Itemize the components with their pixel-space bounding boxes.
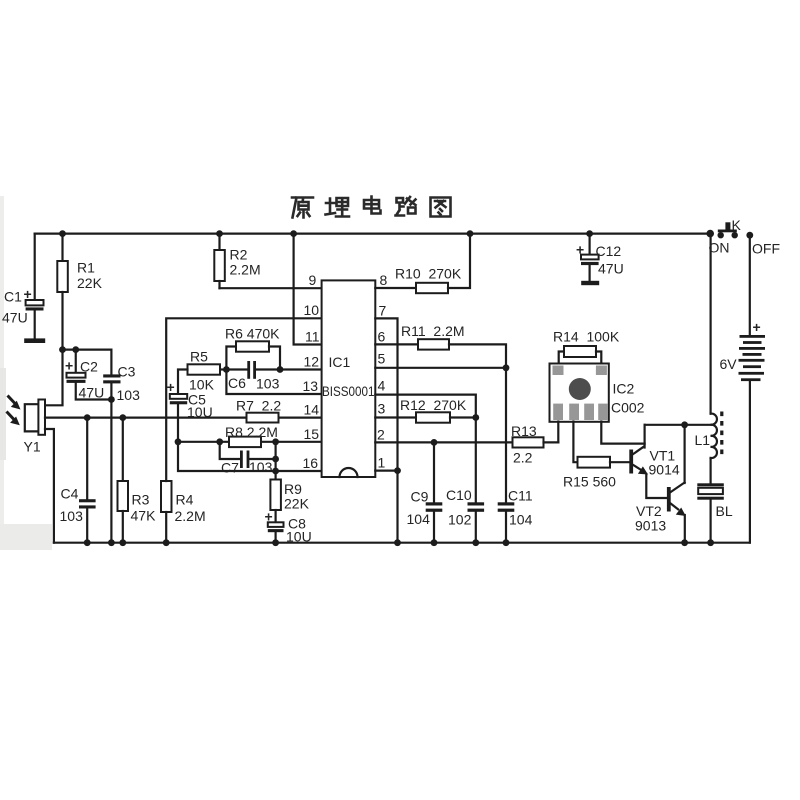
svg-text:+: +	[265, 509, 273, 525]
svg-text:R12 270K: R12 270K	[400, 397, 467, 413]
title 原	[292, 198, 313, 218]
svg-text:C6: C6	[228, 375, 246, 391]
wire pin 9 line	[220, 287, 322, 289]
resistor R7	[236, 398, 281, 423]
svg-text:Y1: Y1	[24, 439, 41, 455]
resistor R15	[563, 457, 629, 490]
svg-text:103: 103	[256, 376, 280, 392]
capacitor C4	[60, 418, 96, 543]
svg-text:103: 103	[249, 459, 273, 475]
buzzer BL	[697, 483, 733, 542]
svg-text:4: 4	[378, 378, 386, 394]
svg-text:C7: C7	[221, 460, 239, 476]
svg-text:16: 16	[303, 455, 319, 471]
svg-text:7: 7	[379, 303, 387, 319]
pin number 12	[304, 354, 320, 370]
pin number 11	[305, 329, 320, 345]
svg-text:104: 104	[407, 511, 431, 527]
capacitor C9	[407, 442, 443, 542]
title 埋	[326, 198, 350, 217]
svg-text:R15 560: R15 560	[563, 474, 616, 490]
svg-text:10: 10	[304, 302, 320, 318]
svg-text:2.2M: 2.2M	[175, 508, 206, 524]
module IC2 C002	[550, 364, 645, 422]
svg-text:10K: 10K	[189, 377, 215, 393]
capacitor C10	[446, 418, 484, 543]
wire pin 12 line	[280, 368, 322, 370]
transistor VT2 9013	[635, 425, 686, 543]
wire top supply bus	[35, 233, 711, 235]
wire IC2 pad4 to VT1 collector	[601, 422, 644, 444]
wire pin 4 line	[375, 395, 476, 418]
svg-text:47U: 47U	[598, 261, 624, 277]
svg-text:R6 470K: R6 470K	[225, 326, 280, 342]
resistor R6 with loop	[225, 326, 280, 370]
capacitor C1	[2, 234, 45, 343]
wire pin 1 stub	[375, 470, 397, 472]
pin number 3	[378, 401, 386, 417]
wire ground bus	[54, 542, 750, 544]
node C7 right junction	[272, 456, 279, 463]
wire signal line to pin 14	[45, 417, 322, 419]
svg-text:+: +	[65, 358, 73, 374]
svg-text:C3: C3	[118, 364, 136, 380]
title 路	[396, 197, 416, 216]
resistor R9	[270, 442, 309, 523]
wire IC2 pad1 to R13	[557, 422, 559, 443]
resistor R12	[375, 397, 476, 423]
svg-text:22K: 22K	[284, 496, 310, 512]
inductor L1	[695, 235, 722, 483]
svg-text:R11 2.2M: R11 2.2M	[401, 323, 465, 339]
node signal junctions	[84, 414, 126, 421]
svg-text:IC2: IC2	[613, 381, 635, 397]
pin number 10	[304, 302, 320, 318]
pin number 16	[303, 455, 319, 471]
svg-text:K: K	[732, 217, 742, 233]
node pin15 junctions	[175, 438, 279, 445]
svg-text:+: +	[24, 286, 32, 302]
resistor R14	[553, 329, 620, 364]
op-amp IC1 BISS0001	[322, 280, 376, 477]
svg-text:R1: R1	[77, 260, 95, 276]
svg-text:R10 270K: R10 270K	[395, 266, 462, 282]
svg-text:47K: 47K	[131, 508, 157, 524]
svg-text:5: 5	[378, 351, 386, 367]
svg-text:C10: C10	[446, 487, 472, 503]
wire pin 2 line	[375, 441, 512, 443]
node pin2 junction	[431, 439, 438, 446]
svg-text:R2: R2	[230, 247, 248, 263]
title 图	[431, 198, 451, 217]
svg-text:11: 11	[305, 329, 320, 345]
wire pin 15 line	[178, 441, 322, 443]
scan artifact left gray strip	[0, 196, 4, 526]
svg-text:C2: C2	[80, 359, 98, 375]
resistor R1	[45, 234, 103, 406]
pin number 14	[304, 402, 320, 418]
pin number 13	[303, 378, 319, 394]
svg-text:9013: 9013	[635, 518, 666, 534]
svg-text:6V: 6V	[720, 356, 738, 372]
wire pin10 frame	[166, 318, 321, 481]
pin number 15	[304, 426, 320, 442]
node top bus junctions	[59, 230, 714, 238]
pin number 9	[309, 272, 317, 288]
svg-text:10U: 10U	[286, 529, 312, 545]
svg-text:22K: 22K	[77, 275, 103, 291]
wire L1 tap line	[645, 424, 712, 426]
wire pin 13 line	[226, 370, 321, 395]
capacitor C5	[167, 379, 213, 442]
capacitor C7 with loop	[220, 442, 276, 476]
svg-text:102: 102	[448, 512, 472, 528]
svg-text:15: 15	[304, 426, 320, 442]
node pin5 junction	[503, 364, 510, 371]
wire pin 16 line	[178, 442, 322, 471]
svg-text:BL: BL	[716, 503, 733, 519]
svg-text:R8 2.2M: R8 2.2M	[225, 424, 278, 440]
svg-text:BISS0001: BISS0001	[322, 383, 375, 399]
resistor R5	[178, 349, 226, 395]
svg-text:1: 1	[378, 455, 386, 471]
svg-text:C002: C002	[611, 400, 645, 416]
svg-text:R7 2.2: R7 2.2	[236, 398, 281, 414]
svg-text:C4: C4	[61, 486, 79, 502]
node ground bus junctions	[84, 539, 714, 546]
transistor VT1 9014	[629, 425, 680, 498]
pin number 2	[377, 427, 385, 443]
svg-text:R4: R4	[176, 492, 194, 508]
svg-text:2.2M: 2.2M	[230, 262, 261, 278]
svg-text:6: 6	[378, 329, 386, 345]
svg-text:+: +	[167, 379, 175, 395]
svg-text:IC1: IC1	[329, 354, 351, 370]
title 电	[364, 197, 381, 214]
battery 6V	[720, 235, 766, 543]
svg-text:C11: C11	[508, 488, 533, 504]
svg-text:14: 14	[304, 402, 320, 418]
pin number 5	[378, 351, 386, 367]
pin number 6	[378, 329, 386, 345]
node R1 bottom junction	[59, 346, 79, 353]
resistor R11	[375, 323, 506, 368]
svg-text:R13: R13	[511, 423, 537, 439]
svg-text:+: +	[576, 242, 584, 258]
node pin12 junctions	[223, 366, 283, 373]
svg-text:104: 104	[509, 512, 533, 528]
wire pin 7 drop	[375, 318, 397, 542]
svg-text:C9: C9	[411, 489, 429, 505]
svg-text:47U: 47U	[79, 385, 105, 401]
arrows into Y1	[7, 396, 21, 426]
svg-text:2: 2	[377, 427, 385, 443]
svg-text:R3: R3	[132, 492, 150, 508]
svg-text:R14 100K: R14 100K	[553, 329, 620, 345]
node C2/C3 lower junction	[108, 396, 115, 403]
svg-text:10U: 10U	[187, 404, 213, 420]
pin number 4	[378, 378, 386, 394]
capacitor C8	[265, 509, 312, 545]
pin number 1	[378, 455, 386, 471]
svg-text:103: 103	[60, 508, 84, 524]
svg-text:L1: L1	[695, 432, 711, 448]
pin number 7	[379, 303, 387, 319]
wire pin 11 drop from bus	[294, 234, 322, 345]
capacitor C6	[226, 361, 280, 392]
resistor R10	[375, 234, 470, 294]
svg-text:OFF: OFF	[752, 241, 780, 257]
wire C2/C3 top branch	[63, 349, 112, 351]
svg-text:2.2: 2.2	[513, 450, 533, 466]
svg-text:13: 13	[303, 378, 319, 394]
capacitor C12	[576, 234, 624, 286]
svg-text:9014: 9014	[649, 462, 680, 478]
node pin3/4 junction	[472, 414, 479, 421]
sensor Y1	[24, 400, 54, 543]
capacitor C3	[103, 350, 140, 543]
capacitor C11	[498, 368, 533, 543]
resistor R3	[118, 418, 157, 543]
svg-text:C12: C12	[596, 243, 622, 259]
svg-text:103: 103	[117, 387, 141, 403]
resistor R13	[511, 423, 558, 466]
resistor R4	[161, 481, 206, 543]
capacitor C2	[65, 350, 111, 401]
node pin16 junction	[272, 468, 279, 475]
node pin1 junction	[394, 467, 401, 474]
svg-text:+: +	[753, 319, 761, 335]
svg-text:R5: R5	[190, 349, 208, 365]
resistor R8	[225, 424, 278, 447]
node L1 tap junction	[681, 421, 688, 428]
svg-text:9: 9	[309, 272, 317, 288]
svg-text:ON: ON	[709, 240, 730, 256]
pin number 8	[380, 272, 388, 288]
svg-text:47U: 47U	[2, 310, 28, 326]
svg-text:3: 3	[378, 401, 386, 417]
svg-text:8: 8	[380, 272, 388, 288]
resistor R2	[214, 234, 260, 289]
svg-text:C1: C1	[4, 289, 22, 305]
wire IC2 pad2 to R15	[573, 422, 577, 463]
wire pin 5 line	[375, 367, 506, 369]
switch K	[709, 217, 781, 257]
svg-text:12: 12	[304, 354, 320, 370]
